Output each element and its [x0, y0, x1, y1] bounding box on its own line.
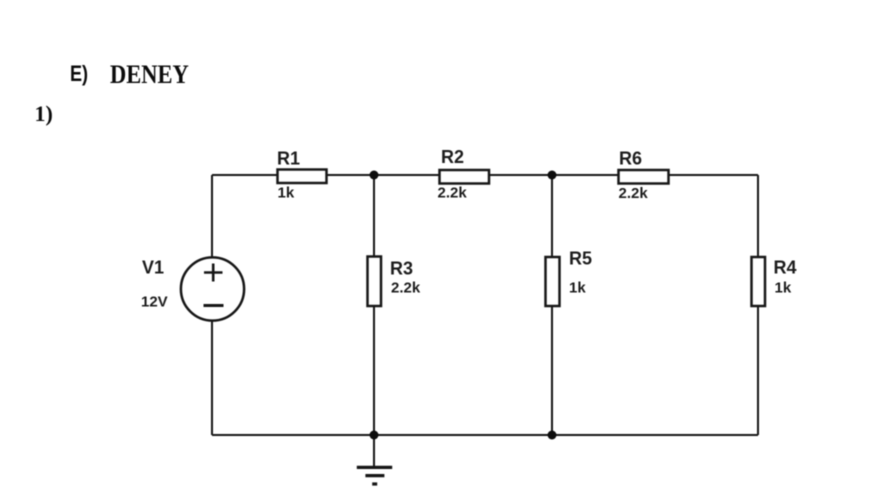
svg-text:R6: R6 — [619, 149, 642, 169]
svg-text:R1: R1 — [277, 149, 300, 169]
svg-text:R5: R5 — [569, 249, 592, 269]
svg-text:V1: V1 — [142, 258, 164, 278]
svg-text:R3: R3 — [390, 259, 413, 279]
svg-text:1k: 1k — [569, 280, 586, 297]
svg-text:1k: 1k — [775, 280, 792, 297]
svg-text:R2: R2 — [441, 147, 464, 167]
svg-text:1k: 1k — [278, 185, 295, 202]
svg-text:12V: 12V — [141, 294, 168, 311]
svg-text:R4: R4 — [774, 258, 797, 278]
svg-text:2.2k: 2.2k — [391, 280, 421, 297]
svg-text:2.2k: 2.2k — [438, 185, 468, 202]
svg-text:2.2k: 2.2k — [619, 185, 649, 202]
